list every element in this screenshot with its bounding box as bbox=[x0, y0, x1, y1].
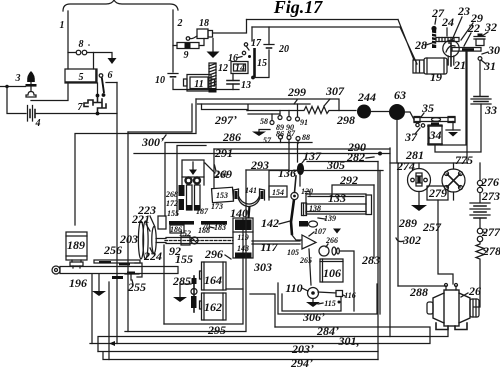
platform 256 bbox=[94, 243, 142, 277]
long left vertical wire bbox=[116, 83, 118, 344]
wire 294 bbox=[103, 352, 378, 370]
lamp 274 bbox=[396, 159, 431, 192]
label 136 bbox=[278, 166, 297, 180]
svg-text:295: 295 bbox=[207, 323, 226, 337]
svg-text:15: 15 bbox=[257, 58, 267, 69]
svg-text:30: 30 bbox=[487, 43, 500, 57]
roller 196 bbox=[52, 266, 178, 290]
svg-text:294ʼ: 294ʼ bbox=[290, 356, 313, 370]
svg-text:154: 154 bbox=[272, 188, 284, 197]
lever 285 bbox=[172, 274, 197, 312]
box 162 bbox=[200, 293, 227, 320]
disc 221 bbox=[119, 203, 162, 263]
svg-text:276: 276 bbox=[480, 175, 499, 189]
leader labels 23 24 29 22 bbox=[441, 4, 483, 46]
svg-text:2: 2 bbox=[177, 18, 183, 29]
svg-text:58: 58 bbox=[260, 117, 268, 126]
battery 33 bbox=[471, 97, 497, 118]
box wire 305 bbox=[269, 158, 383, 200]
svg-text:279: 279 bbox=[428, 186, 447, 200]
svg-text:187: 187 bbox=[196, 207, 209, 216]
motor 26 bbox=[427, 284, 481, 330]
label 142 bbox=[261, 216, 290, 230]
svg-text:31: 31 bbox=[483, 59, 496, 73]
svg-text:141: 141 bbox=[245, 186, 257, 195]
shaft to frame bbox=[156, 216, 166, 243]
contact 137 bbox=[297, 144, 322, 187]
junction dot 63 bbox=[389, 88, 406, 120]
svg-text:17: 17 bbox=[251, 38, 262, 49]
bearing 266 bbox=[319, 236, 339, 256]
svg-text:22: 22 bbox=[467, 21, 480, 35]
svg-text:273: 273 bbox=[481, 189, 500, 203]
arrow small bbox=[333, 229, 341, 234]
box 186 bbox=[170, 225, 184, 234]
resistor 278 bbox=[474, 242, 500, 307]
svg-text:119: 119 bbox=[237, 233, 249, 242]
wire 288 bbox=[398, 285, 446, 299]
wire box5 to bell bbox=[31, 83, 68, 101]
svg-text:173: 173 bbox=[211, 202, 223, 211]
svg-text:153: 153 bbox=[216, 191, 228, 200]
labels 58 89 90 91 bbox=[260, 117, 308, 132]
node dot bbox=[251, 76, 255, 80]
svg-text:33: 33 bbox=[484, 103, 497, 117]
wire mech to battery33 bbox=[479, 61, 481, 97]
svg-text:63: 63 bbox=[394, 88, 406, 102]
svg-text:155: 155 bbox=[175, 252, 193, 266]
svg-text:139: 139 bbox=[324, 214, 336, 223]
svg-text:302: 302 bbox=[402, 233, 421, 247]
support 139 bbox=[299, 214, 336, 227]
ground 285 bbox=[173, 284, 191, 302]
relay box 5 bbox=[65, 69, 97, 83]
svg-text:133: 133 bbox=[328, 191, 346, 205]
svg-text:282: 282 bbox=[346, 150, 365, 164]
svg-text:307: 307 bbox=[325, 84, 345, 98]
svg-text:188: 188 bbox=[198, 226, 210, 235]
box 296 bbox=[204, 247, 231, 261]
wire 269 riser bbox=[213, 149, 232, 188]
svg-text:284ʼ: 284ʼ bbox=[316, 324, 339, 338]
svg-text:268: 268 bbox=[165, 190, 178, 199]
shaft mid bbox=[166, 238, 233, 244]
wire 2 vertical bbox=[172, 10, 174, 72]
svg-text:164: 164 bbox=[204, 273, 222, 287]
solenoid 19 bbox=[413, 58, 447, 84]
svg-text:196: 196 bbox=[69, 276, 87, 290]
svg-text:143: 143 bbox=[237, 244, 249, 253]
svg-text:1: 1 bbox=[60, 20, 65, 31]
svg-text:137: 137 bbox=[303, 149, 322, 163]
svg-text:300ʼ: 300ʼ bbox=[141, 135, 164, 149]
wire 299 bbox=[196, 99, 339, 111]
lever 141 coil bbox=[234, 186, 265, 218]
svg-text:Fig.17: Fig.17 bbox=[273, 0, 324, 17]
labels 105 265 303 bbox=[253, 248, 312, 274]
battery 273 bbox=[470, 189, 500, 228]
svg-text:4: 4 bbox=[35, 118, 41, 129]
svg-text:12: 12 bbox=[218, 63, 228, 74]
wire 21 branch to 34 bbox=[441, 51, 466, 145]
svg-text:303: 303 bbox=[253, 260, 272, 274]
svg-text:10: 10 bbox=[155, 75, 165, 86]
svg-text:293: 293 bbox=[250, 158, 269, 172]
wire from 8 to arrow bbox=[68, 53, 112, 59]
svg-text:257: 257 bbox=[422, 220, 442, 234]
svg-text:34: 34 bbox=[429, 128, 442, 142]
svg-text:269: 269 bbox=[215, 170, 228, 179]
label 283 bbox=[361, 253, 380, 267]
svg-text:16: 16 bbox=[228, 53, 238, 64]
box 164 bbox=[200, 262, 244, 290]
labels 70 183 182 188 152 bbox=[179, 222, 226, 238]
svg-text:155: 155 bbox=[167, 209, 179, 218]
cluster ground bbox=[252, 130, 270, 137]
svg-text:292: 292 bbox=[339, 173, 358, 187]
funnel 107 bbox=[297, 227, 327, 249]
battery 4 bbox=[28, 106, 41, 130]
svg-text:91: 91 bbox=[300, 118, 308, 127]
svg-text:105: 105 bbox=[287, 248, 299, 257]
svg-text:286: 286 bbox=[222, 130, 241, 144]
svg-text:203ʼ: 203ʼ bbox=[291, 342, 314, 356]
svg-text:18: 18 bbox=[199, 18, 209, 29]
wire bell left bbox=[0, 86, 26, 88]
contact 30 31 bbox=[478, 43, 500, 73]
wire battery to right bbox=[36, 113, 117, 115]
svg-text:289: 289 bbox=[398, 216, 417, 230]
wire 266 down bbox=[340, 251, 355, 311]
svg-text:244: 244 bbox=[357, 90, 376, 104]
box 153 bbox=[205, 163, 233, 203]
rod 27 bbox=[431, 6, 445, 48]
box 279 bbox=[427, 186, 448, 200]
wire bottom bus bbox=[173, 79, 239, 90]
cylinder 133 bbox=[302, 191, 372, 216]
lamp 275 bbox=[442, 153, 473, 192]
lamp275 lower stem bbox=[453, 192, 455, 200]
coil 11 bbox=[184, 75, 215, 92]
wire 301 bbox=[98, 329, 448, 352]
pulley 110 bbox=[285, 281, 318, 299]
arrow node under 18 bbox=[212, 39, 214, 52]
junction dot on bus bbox=[96, 112, 100, 116]
crossbar 24 bbox=[436, 38, 459, 42]
svg-text:299: 299 bbox=[287, 85, 306, 99]
dashed link bbox=[165, 240, 233, 242]
svg-text:110: 110 bbox=[285, 281, 302, 295]
svg-text:296: 296 bbox=[204, 247, 223, 261]
box 154 bbox=[269, 186, 287, 197]
wire 63 down bbox=[396, 120, 398, 163]
svg-text:189: 189 bbox=[67, 238, 85, 252]
switch cluster box wires bbox=[198, 104, 311, 111]
plug 3 bbox=[15, 71, 37, 97]
svg-text:138: 138 bbox=[309, 204, 321, 213]
svg-text:88: 88 bbox=[302, 133, 310, 142]
svg-text:6: 6 bbox=[108, 70, 113, 81]
resistor 12 bbox=[209, 63, 229, 93]
box 306 bbox=[282, 294, 341, 311]
armature 22 30 bbox=[452, 48, 481, 52]
long vertical 394 bbox=[389, 148, 391, 337]
wire 1 vertical bbox=[67, 11, 69, 69]
wire 378 riser bbox=[377, 162, 379, 352]
relay 7 bbox=[78, 94, 107, 114]
resistor 307 bbox=[247, 84, 356, 114]
svg-text:57: 57 bbox=[263, 136, 272, 145]
box 314 bbox=[278, 283, 377, 314]
arm 116 bbox=[318, 291, 356, 304]
ground 115 bbox=[306, 299, 336, 309]
svg-text:142: 142 bbox=[261, 216, 279, 230]
wire 286 drop bbox=[128, 104, 192, 132]
fuse 9 bbox=[173, 39, 204, 62]
svg-text:21: 21 bbox=[453, 58, 466, 72]
label 300 bbox=[141, 135, 166, 149]
labels 268 172 bbox=[165, 185, 185, 210]
svg-text:306ʼ: 306ʼ bbox=[302, 310, 325, 324]
arrow marker on wire bbox=[109, 341, 115, 346]
wire 110 loop bbox=[250, 294, 275, 327]
wire 297 drop bbox=[75, 99, 196, 225]
svg-text:224: 224 bbox=[143, 249, 162, 263]
contact 255 bbox=[112, 272, 146, 295]
wire 292 bbox=[332, 173, 374, 196]
svg-text:24: 24 bbox=[441, 15, 454, 29]
svg-text:35: 35 bbox=[421, 101, 434, 115]
svg-text:107: 107 bbox=[314, 227, 327, 236]
lever 21 bbox=[448, 43, 466, 72]
coil 34 bbox=[428, 123, 442, 146]
wire mech inner vertical bbox=[466, 51, 468, 163]
bottom long wires bbox=[125, 170, 246, 332]
wire battery33 down bbox=[435, 104, 481, 152]
battery 20 bbox=[264, 27, 289, 55]
contacts lower row 86 87 88 bbox=[279, 135, 301, 144]
lamp contacts 276 bbox=[477, 163, 499, 193]
wire 291 bbox=[214, 146, 390, 160]
stop 32 bbox=[474, 20, 497, 46]
long vertical 398 bbox=[397, 163, 399, 286]
svg-text:288: 288 bbox=[409, 285, 428, 299]
svg-text:115: 115 bbox=[324, 299, 336, 308]
svg-text:5: 5 bbox=[79, 72, 84, 83]
wire 282 bbox=[307, 150, 378, 164]
svg-text:26: 26 bbox=[468, 284, 481, 298]
switch 6 bbox=[99, 70, 117, 97]
svg-text:301,: 301, bbox=[338, 334, 360, 348]
arrow down node bbox=[108, 58, 117, 64]
coil 18 bbox=[186, 18, 212, 40]
contacts 37 bbox=[404, 123, 425, 144]
svg-text:285: 285 bbox=[172, 274, 191, 288]
coil 189 bbox=[66, 232, 87, 268]
cam circle 23 bbox=[443, 40, 459, 56]
contacts upper row 58 89 90 91 bbox=[270, 104, 300, 125]
svg-text:11: 11 bbox=[194, 79, 203, 90]
wire down to battery 4 bbox=[7, 87, 26, 114]
svg-text:14: 14 bbox=[235, 63, 245, 74]
wire 279 to motor bbox=[438, 200, 453, 284]
svg-text:172: 172 bbox=[166, 199, 178, 208]
bar 35 bbox=[414, 101, 455, 123]
wire 203 bbox=[90, 324, 430, 356]
cluster wire lower bbox=[248, 113, 280, 115]
svg-text:203: 203 bbox=[119, 232, 138, 246]
box 106 bbox=[320, 259, 343, 282]
junction dot 244 bbox=[357, 90, 376, 119]
svg-text:117: 117 bbox=[260, 240, 278, 254]
brace over top bbox=[63, 0, 178, 11]
wire riser to box5 bbox=[93, 53, 95, 70]
rod down from funnel bbox=[309, 249, 311, 285]
ground right of 34 bbox=[446, 122, 460, 137]
pivot circle bbox=[191, 237, 198, 244]
machine box 295 bottom bbox=[164, 218, 243, 324]
svg-text:13: 13 bbox=[241, 80, 251, 91]
wire parallel feeder bbox=[202, 104, 249, 110]
svg-text:20: 20 bbox=[278, 44, 289, 55]
svg-text:106: 106 bbox=[323, 266, 341, 280]
ground under roller bbox=[92, 274, 106, 296]
battery 10 bbox=[155, 74, 178, 87]
svg-text:162: 162 bbox=[204, 300, 222, 314]
svg-text:775: 775 bbox=[455, 153, 473, 167]
ground under 274 bbox=[411, 192, 427, 212]
feeder diagonals to 19 bbox=[398, 20, 417, 65]
verticals right of machine bbox=[374, 171, 380, 315]
coil 140 and box 119 143 bbox=[230, 206, 253, 258]
junction dot 290-283 bbox=[378, 152, 382, 156]
svg-text:116: 116 bbox=[344, 291, 356, 300]
wire node to 20 branch bbox=[253, 50, 269, 78]
svg-text:283: 283 bbox=[361, 253, 380, 267]
top feeder wire b bbox=[252, 26, 400, 28]
svg-text:297ʼ: 297ʼ bbox=[214, 113, 237, 127]
contact 8 bbox=[76, 39, 90, 55]
switch 16 17 bbox=[228, 38, 262, 64]
jack 15 bbox=[252, 27, 267, 77]
label 92 155 bbox=[169, 244, 193, 266]
contact bars bbox=[169, 221, 227, 225]
svg-text:23: 23 bbox=[457, 4, 470, 18]
shaft 117 bbox=[252, 240, 300, 254]
top feeder wire a bbox=[247, 19, 399, 21]
svg-text:19: 19 bbox=[430, 70, 442, 84]
condenser 14 bbox=[231, 62, 248, 75]
svg-text:255: 255 bbox=[127, 280, 146, 294]
wire 63 to bar 35 bbox=[405, 112, 414, 120]
lamp feeder wire bbox=[390, 148, 467, 163]
node junction bbox=[5, 85, 8, 88]
svg-text:3: 3 bbox=[15, 73, 21, 84]
svg-text:266: 266 bbox=[325, 236, 338, 245]
lever 120 bbox=[291, 176, 313, 235]
capacitor 13 bbox=[227, 74, 251, 92]
svg-text:8: 8 bbox=[79, 39, 84, 50]
svg-text:140: 140 bbox=[230, 206, 248, 220]
svg-text:305: 305 bbox=[326, 158, 345, 172]
labels 86 87 88 57 bbox=[263, 129, 310, 145]
svg-text:28: 28 bbox=[414, 38, 427, 52]
svg-text:9: 9 bbox=[184, 50, 189, 61]
solenoid pair 268 bbox=[182, 160, 204, 211]
svg-text:298: 298 bbox=[336, 113, 355, 127]
label 28 bbox=[414, 38, 432, 52]
svg-text:221: 221 bbox=[131, 212, 150, 226]
machine outer box top bbox=[177, 146, 206, 216]
label 299 bbox=[287, 85, 306, 104]
svg-text:274: 274 bbox=[396, 159, 415, 173]
contacts 277 bbox=[477, 225, 500, 242]
wire 244 to 63 bbox=[371, 111, 389, 113]
svg-text:32: 32 bbox=[484, 20, 497, 34]
left loop verticals bbox=[91, 274, 93, 344]
wire mid bottom bbox=[98, 352, 378, 360]
svg-text:87: 87 bbox=[287, 129, 296, 138]
svg-text:183: 183 bbox=[214, 223, 226, 232]
wire 293 bbox=[246, 144, 289, 173]
wire 290 bbox=[134, 140, 390, 154]
machine inner frame left bbox=[163, 245, 165, 324]
svg-text:136: 136 bbox=[278, 166, 296, 180]
wire 286 bbox=[165, 130, 312, 216]
label 302 bbox=[396, 233, 421, 247]
svg-text:86: 86 bbox=[276, 130, 284, 139]
wire 18 to right riser bbox=[213, 20, 247, 34]
wire box5 to relay 7 bbox=[97, 83, 99, 94]
